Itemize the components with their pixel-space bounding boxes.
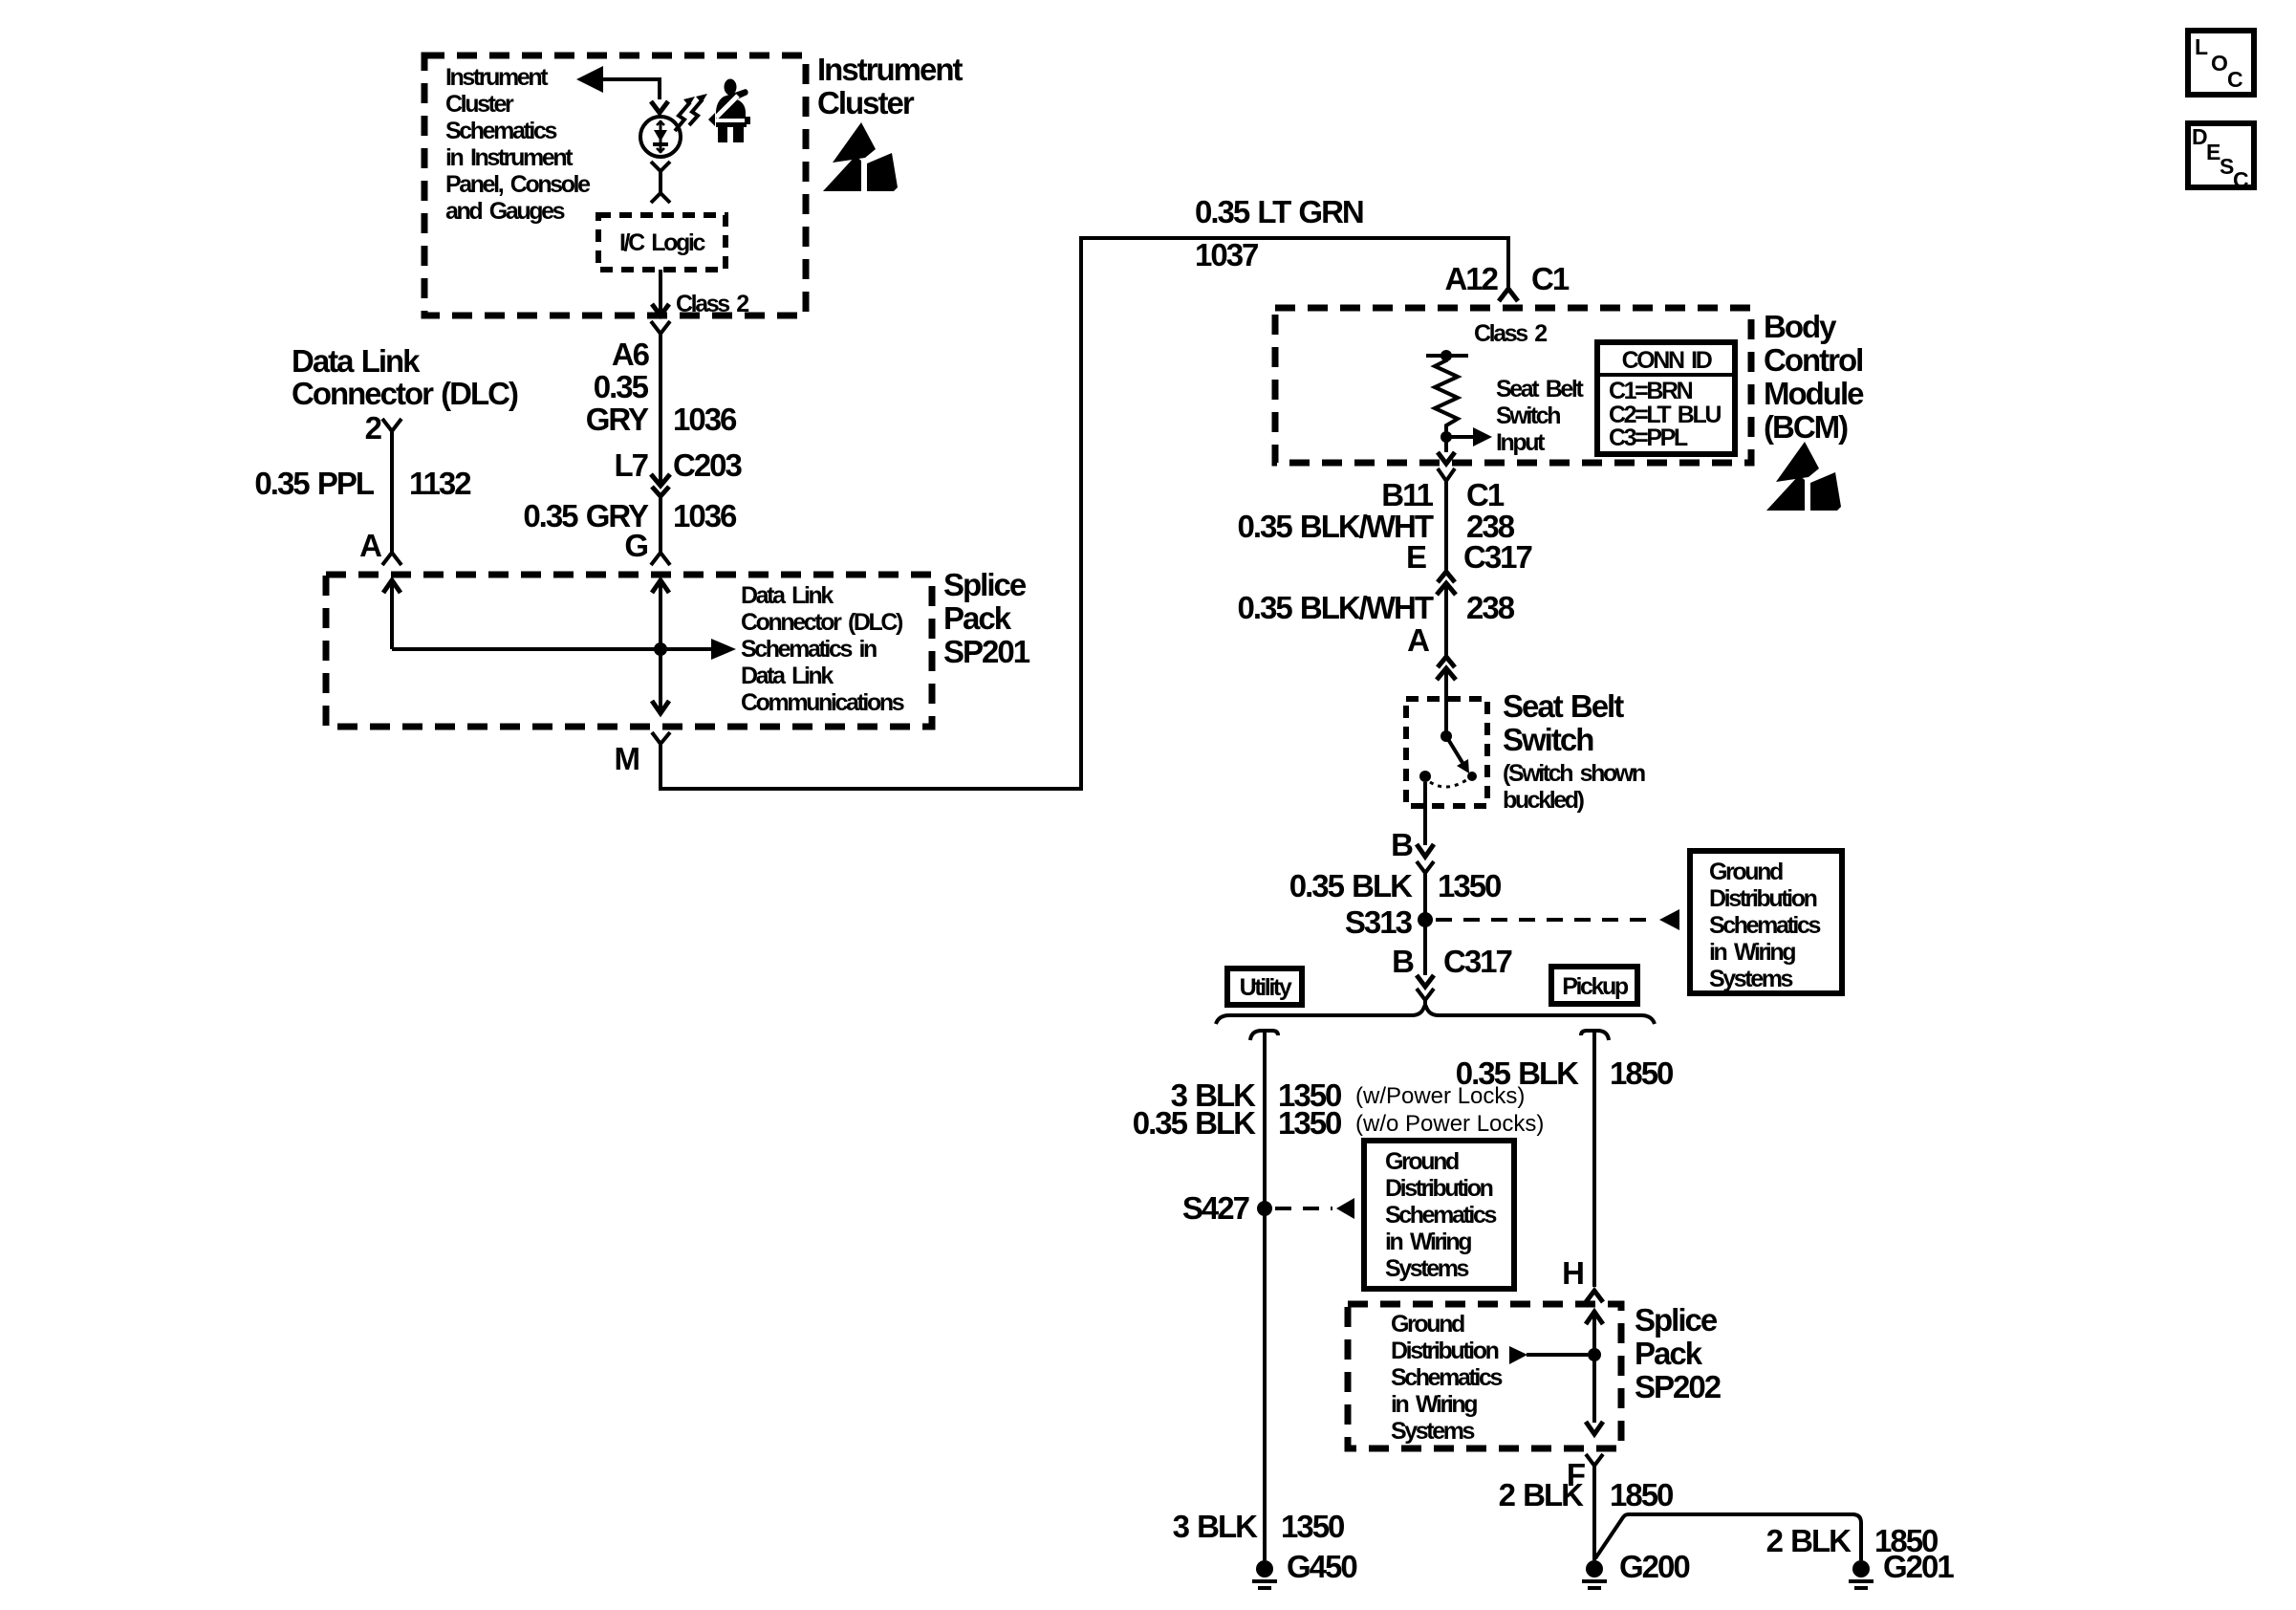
svg-text:0.35 PPL: 0.35 PPL xyxy=(254,466,374,501)
SP202 arrow from note xyxy=(1509,1346,1588,1364)
utility label box xyxy=(1227,968,1302,1005)
svg-text:2 BLK: 2 BLK xyxy=(1766,1523,1852,1558)
svg-text:Data Link: Data Link xyxy=(292,343,421,379)
svg-text:in Wiring: in Wiring xyxy=(1385,1229,1471,1255)
svg-text:Data Link: Data Link xyxy=(741,582,834,609)
svg-text:C1: C1 xyxy=(1466,477,1505,512)
connector pair below indicator xyxy=(651,162,670,203)
svg-text:C1=BRN: C1=BRN xyxy=(1609,378,1693,404)
svg-text:Schematics: Schematics xyxy=(445,118,556,144)
svg-text:C3=PPL: C3=PPL xyxy=(1609,424,1688,451)
svg-text:(BCM): (BCM) xyxy=(1764,409,1848,445)
svg-text:B11: B11 xyxy=(1381,477,1433,512)
splice pack SP202 dashed box xyxy=(1348,1304,1621,1448)
wire utility branch 3 BLK 1350 xyxy=(1250,1031,1278,1040)
svg-text:0.35 LT GRN: 0.35 LT GRN xyxy=(1195,194,1363,229)
svg-text:CONN ID: CONN ID xyxy=(1622,347,1712,374)
S313 dashed leader to ground distribution note xyxy=(1436,918,1656,922)
arrow to instrument cluster schematics xyxy=(576,66,660,99)
svg-text:3 BLK: 3 BLK xyxy=(1173,1509,1259,1544)
svg-text:Distribution: Distribution xyxy=(1391,1338,1499,1364)
svg-text:in Wiring: in Wiring xyxy=(1391,1391,1477,1418)
connector pin at indicator top xyxy=(651,101,668,113)
svg-text:Utility: Utility xyxy=(1240,974,1292,1001)
svg-text:in Wiring: in Wiring xyxy=(1709,939,1795,966)
seat belt switch dashed box xyxy=(1406,699,1487,806)
svg-text:SP202: SP202 xyxy=(1635,1369,1722,1404)
svg-text:B: B xyxy=(1392,944,1414,979)
seat belt switch input arrow xyxy=(1440,427,1492,446)
svg-text:C1: C1 xyxy=(1531,261,1570,296)
svg-text:C317: C317 xyxy=(1463,539,1532,575)
svg-text:Ground: Ground xyxy=(1709,859,1783,885)
svg-text:Systems: Systems xyxy=(1385,1255,1469,1282)
svg-text:Seat Belt: Seat Belt xyxy=(1496,376,1584,402)
svg-text:Input: Input xyxy=(1496,429,1546,456)
svg-text:(Switch shown: (Switch shown xyxy=(1503,760,1645,787)
pickup label box xyxy=(1551,967,1637,1004)
svg-text:C: C xyxy=(2233,167,2249,192)
svg-text:Switch: Switch xyxy=(1496,402,1560,429)
svg-text:Schematics: Schematics xyxy=(1709,912,1820,939)
ground G200 xyxy=(1586,1560,1603,1577)
svg-text:Distribution: Distribution xyxy=(1385,1175,1493,1202)
svg-text:Pack: Pack xyxy=(1635,1336,1703,1371)
SP201 junction xyxy=(654,642,667,656)
svg-text:Body: Body xyxy=(1764,309,1837,344)
svg-text:E: E xyxy=(1406,539,1426,575)
ground G201 xyxy=(1852,1560,1870,1577)
svg-text:C203: C203 xyxy=(673,447,743,483)
seat belt indicator LED lamp xyxy=(640,117,681,157)
wire 0.35 PPL 1132 xyxy=(390,431,394,553)
wire B C317 below S313 xyxy=(1423,920,1427,975)
wire 0.35 BLK/WHT 238 upper xyxy=(1444,481,1448,572)
svg-text:1036: 1036 xyxy=(673,498,737,533)
svg-text:G201: G201 xyxy=(1883,1549,1954,1584)
switch output wire B xyxy=(1423,782,1427,845)
svg-text:in Instrument: in Instrument xyxy=(445,144,574,171)
svg-text:1036: 1036 xyxy=(673,402,737,437)
svg-text:(w/o Power Locks): (w/o Power Locks) xyxy=(1355,1111,1544,1137)
light emission arrows xyxy=(675,94,707,131)
svg-text:0.35 BLK: 0.35 BLK xyxy=(1133,1105,1256,1141)
ESD sensitive device symbol (instrument cluster) xyxy=(823,122,898,191)
svg-text:1850: 1850 xyxy=(1610,1055,1673,1091)
svg-text:I/C Logic: I/C Logic xyxy=(619,229,705,256)
svg-text:2 BLK: 2 BLK xyxy=(1499,1477,1585,1512)
svg-text:Class 2: Class 2 xyxy=(676,291,748,317)
svg-text:Seat Belt: Seat Belt xyxy=(1503,688,1624,724)
svg-text:B: B xyxy=(1391,827,1413,862)
Data Link Connector (DLC) title xyxy=(292,343,518,411)
connector below switch xyxy=(1417,861,1434,873)
svg-text:C: C xyxy=(2227,67,2243,92)
svg-text:GRY: GRY xyxy=(586,402,649,437)
svg-text:Panel, Console: Panel, Console xyxy=(445,171,591,198)
svg-text:Distribution: Distribution xyxy=(1709,885,1817,912)
svg-text:S427: S427 xyxy=(1182,1190,1249,1226)
switch contacts and arm xyxy=(1419,730,1477,787)
svg-text:A: A xyxy=(359,528,381,563)
SP201 note text xyxy=(741,582,904,716)
svg-text:S313: S313 xyxy=(1345,904,1413,940)
svg-text:Pack: Pack xyxy=(943,600,1012,636)
svg-text:Control: Control xyxy=(1764,342,1862,378)
BCM internal resistor xyxy=(1426,350,1468,437)
wire into seat belt switch xyxy=(1444,668,1448,736)
svg-text:H: H xyxy=(1562,1255,1583,1291)
svg-text:Pickup: Pickup xyxy=(1562,973,1629,1000)
SP201 wire down to M xyxy=(659,649,662,711)
svg-text:L7: L7 xyxy=(614,447,647,483)
SP202 note text xyxy=(1391,1311,1502,1445)
svg-text:Schematics: Schematics xyxy=(1385,1202,1496,1229)
SP201 internal wire from G xyxy=(659,580,662,649)
svg-text:C317: C317 xyxy=(1443,944,1512,979)
svg-text:M: M xyxy=(615,741,639,776)
svg-text:Splice: Splice xyxy=(1635,1302,1718,1338)
svg-text:Data Link: Data Link xyxy=(741,663,834,689)
wire I/C logic to A6 with Class 2 label xyxy=(659,270,662,314)
SP201 internal wire from A xyxy=(390,580,394,649)
svg-text:1350: 1350 xyxy=(1278,1105,1341,1141)
wire 0.35 GRY 1036 xyxy=(659,334,662,485)
svg-text:0.35 BLK: 0.35 BLK xyxy=(1456,1055,1579,1091)
svg-text:SP201: SP201 xyxy=(943,634,1030,669)
svg-text:238: 238 xyxy=(1466,590,1515,625)
wire 2 BLK 1850 to G200 xyxy=(1592,1466,1596,1560)
ground distribution schematics box (center) xyxy=(1364,1141,1514,1289)
SP202 title xyxy=(1635,1302,1722,1404)
svg-text:G: G xyxy=(624,528,647,563)
svg-text:Systems: Systems xyxy=(1391,1418,1475,1445)
svg-text:Systems: Systems xyxy=(1709,966,1793,992)
wire pickup branch 0.35 BLK 1850 xyxy=(1581,1031,1609,1040)
svg-text:Cluster: Cluster xyxy=(445,91,514,118)
svg-text:1037: 1037 xyxy=(1195,237,1258,272)
svg-text:Module: Module xyxy=(1764,376,1864,411)
instrument cluster dashed box xyxy=(424,55,806,315)
SP201 title xyxy=(943,567,1030,669)
svg-text:Class 2: Class 2 xyxy=(1474,320,1547,347)
BCM exit wire xyxy=(1444,437,1448,452)
svg-text:1350: 1350 xyxy=(1281,1509,1344,1544)
svg-text:G200: G200 xyxy=(1619,1549,1689,1584)
svg-text:1850: 1850 xyxy=(1610,1477,1673,1512)
wire 0.35 BLK 1350 xyxy=(1423,873,1427,920)
S427 dashed leader xyxy=(1275,1207,1332,1210)
svg-text:Ground: Ground xyxy=(1391,1311,1464,1338)
I/C Logic dashed box xyxy=(598,215,726,270)
svg-text:Instrument: Instrument xyxy=(817,52,964,87)
wire 0.35 BLK/WHT 238 lower xyxy=(1444,583,1448,657)
ground G450 xyxy=(1256,1560,1273,1577)
svg-text:2: 2 xyxy=(365,410,382,446)
svg-text:Schematics in: Schematics in xyxy=(741,636,877,663)
svg-text:and Gauges: and Gauges xyxy=(445,198,565,225)
body control module dashed box xyxy=(1275,308,1751,463)
svg-text:buckled): buckled) xyxy=(1503,787,1585,814)
seat belt switch title xyxy=(1503,688,1624,757)
svg-text:A: A xyxy=(1407,622,1429,658)
seat belt person icon xyxy=(708,79,750,143)
svg-text:Instrument: Instrument xyxy=(445,64,549,91)
instrument cluster note text xyxy=(445,64,591,225)
LOC reference box xyxy=(2188,31,2254,95)
wire M to BCM (Class 2) xyxy=(661,238,1508,789)
svg-text:0.35 BLK/WHT: 0.35 BLK/WHT xyxy=(1237,590,1433,625)
SP202 internal wire xyxy=(1592,1312,1596,1423)
ground distribution schematics box (right) xyxy=(1690,851,1842,993)
svg-text:0.35 BLK: 0.35 BLK xyxy=(1289,868,1413,903)
ESD sensitive device symbol (BCM) xyxy=(1766,442,1841,511)
CONN ID table xyxy=(1597,342,1735,454)
BCM title xyxy=(1764,309,1864,445)
wire branch to G201 xyxy=(1595,1514,1861,1560)
svg-text:A12: A12 xyxy=(1444,261,1498,296)
svg-text:Schematics: Schematics xyxy=(1391,1364,1502,1391)
svg-text:Connector (DLC): Connector (DLC) xyxy=(292,376,518,411)
svg-text:Cluster: Cluster xyxy=(817,85,915,120)
svg-text:1132: 1132 xyxy=(409,466,471,501)
svg-text:0.35: 0.35 xyxy=(594,369,649,404)
svg-text:O: O xyxy=(2211,51,2228,76)
svg-text:Communications: Communications xyxy=(741,689,904,716)
SP201 bus wire and arrow to note xyxy=(392,647,711,651)
option split brace xyxy=(1216,1005,1655,1024)
seat belt switch input label xyxy=(1496,376,1584,456)
svg-text:G450: G450 xyxy=(1287,1549,1356,1584)
svg-text:Connector (DLC): Connector (DLC) xyxy=(741,609,903,636)
splice pack SP201 dashed box xyxy=(326,575,932,727)
DESC reference box xyxy=(2188,123,2254,192)
svg-text:0.35 BLK/WHT: 0.35 BLK/WHT xyxy=(1237,509,1433,544)
svg-text:Switch: Switch xyxy=(1503,722,1593,757)
svg-text:Ground: Ground xyxy=(1385,1148,1459,1175)
svg-text:L: L xyxy=(2195,34,2208,59)
svg-text:Splice: Splice xyxy=(943,567,1027,602)
instrument cluster title xyxy=(817,52,964,120)
svg-text:A6: A6 xyxy=(612,337,650,372)
SP202 junction xyxy=(1588,1348,1601,1361)
svg-text:1350: 1350 xyxy=(1438,868,1501,903)
